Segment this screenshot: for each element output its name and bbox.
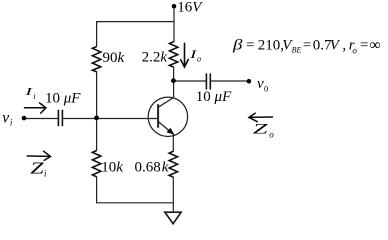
svg-text:∞: ∞ <box>370 38 381 54</box>
svg-text:10 μF: 10 μF <box>196 89 232 105</box>
svg-text:o: o <box>197 54 201 63</box>
svg-text:2.2k: 2.2k <box>142 50 168 66</box>
svg-text:=: = <box>246 38 254 54</box>
svg-text:10 μF: 10 μF <box>45 90 81 106</box>
svg-text:I: I <box>24 87 33 98</box>
svg-text:o: o <box>352 46 357 56</box>
svg-text:i: i <box>33 92 35 101</box>
svg-text:,: , <box>342 38 346 54</box>
svg-text:BE: BE <box>292 45 302 54</box>
svg-text:0: 0 <box>264 83 268 93</box>
svg-text:v: v <box>257 76 264 92</box>
svg-text:=: = <box>360 38 368 54</box>
svg-text:0.68k: 0.68k <box>135 160 169 176</box>
svg-text:v: v <box>2 110 9 127</box>
svg-text:10k: 10k <box>101 160 123 176</box>
svg-text:β: β <box>232 38 243 54</box>
svg-text:210,: 210, <box>258 38 284 54</box>
svg-text:16V: 16V <box>177 0 203 16</box>
svg-text:90k: 90k <box>103 50 125 66</box>
svg-text:Z: Z <box>253 122 269 138</box>
svg-text:o: o <box>269 130 274 140</box>
svg-text:Z: Z <box>30 158 44 177</box>
svg-text:=: = <box>303 38 311 54</box>
